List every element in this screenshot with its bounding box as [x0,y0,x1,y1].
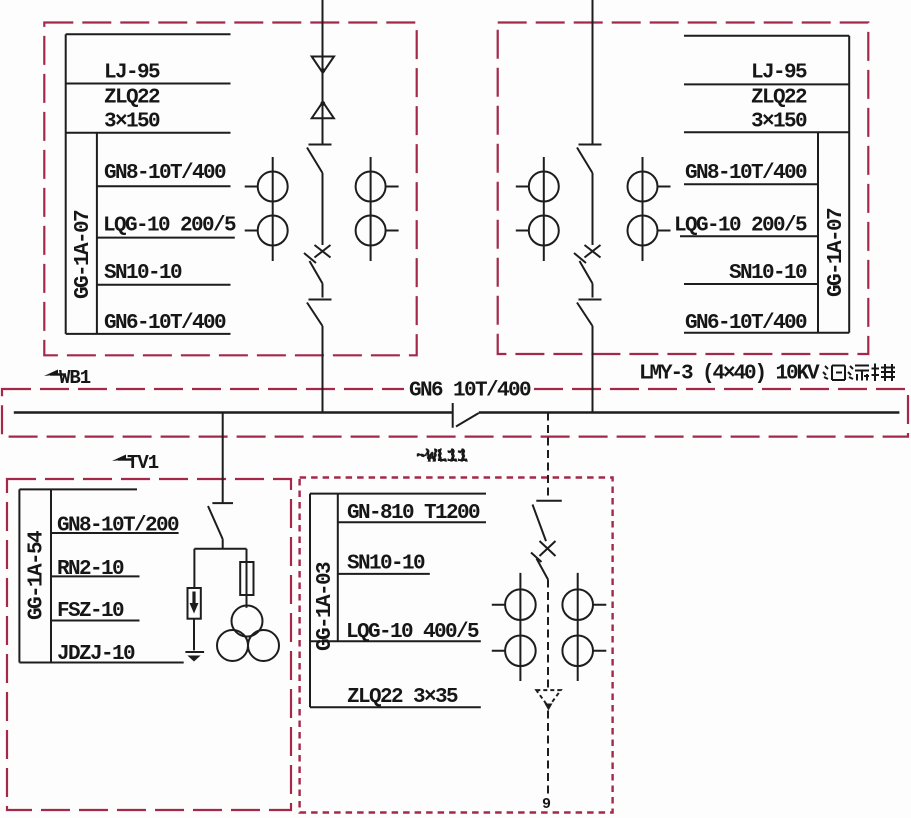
svg-text:LJ-95: LJ-95 [751,62,807,85]
svg-text:WB1: WB1 [59,367,91,389]
svg-text:GN6-10T/400: GN6-10T/400 [685,312,807,335]
svg-text:GG-1A-03: GG-1A-03 [314,562,337,651]
svg-text:9: 9 [542,796,551,813]
svg-text:ZLQ22: ZLQ22 [104,87,160,110]
svg-text:SN10-10: SN10-10 [104,262,182,285]
svg-text:3×150: 3×150 [751,111,807,134]
svg-text:TV1: TV1 [127,452,159,474]
svg-text:GN8-10T/400: GN8-10T/400 [104,162,226,185]
svg-text:FSZ-10: FSZ-10 [57,600,124,623]
svg-text:LMY-3 (4×40) 10KV: LMY-3 (4×40) 10KV [639,363,820,386]
svg-text:LJ-95: LJ-95 [104,62,160,85]
svg-text:3×150: 3×150 [104,111,160,134]
svg-text:GG-1A-07: GG-1A-07 [825,208,848,297]
svg-text:GN8-10T/200: GN8-10T/200 [57,515,179,538]
svg-text:SN10-10: SN10-10 [347,553,425,576]
svg-text:SN10-10: SN10-10 [729,262,807,285]
svg-text:ZLQ22 3×35: ZLQ22 3×35 [347,686,458,709]
svg-text:~WL11: ~WL11 [416,447,468,467]
svg-text:LQG-10 200/5: LQG-10 200/5 [674,215,807,238]
svg-text:LQG-10 200/5: LQG-10 200/5 [103,215,236,238]
svg-text:GG-1A-07: GG-1A-07 [72,210,95,299]
svg-text:GN6-10T/400: GN6-10T/400 [104,312,226,335]
svg-text:GN8-10T/400: GN8-10T/400 [685,162,807,185]
svg-text:RN2-10: RN2-10 [57,558,124,581]
svg-text:GN6 10T/400: GN6 10T/400 [409,380,531,403]
svg-text:LQG-10 400/5: LQG-10 400/5 [346,621,479,644]
svg-text:JDZJ-10: JDZJ-10 [57,643,135,666]
svg-text:GG-1A-54: GG-1A-54 [26,531,49,620]
svg-text:ZLQ22: ZLQ22 [751,87,807,110]
svg-text:GN-810 T1200: GN-810 T1200 [347,502,480,525]
